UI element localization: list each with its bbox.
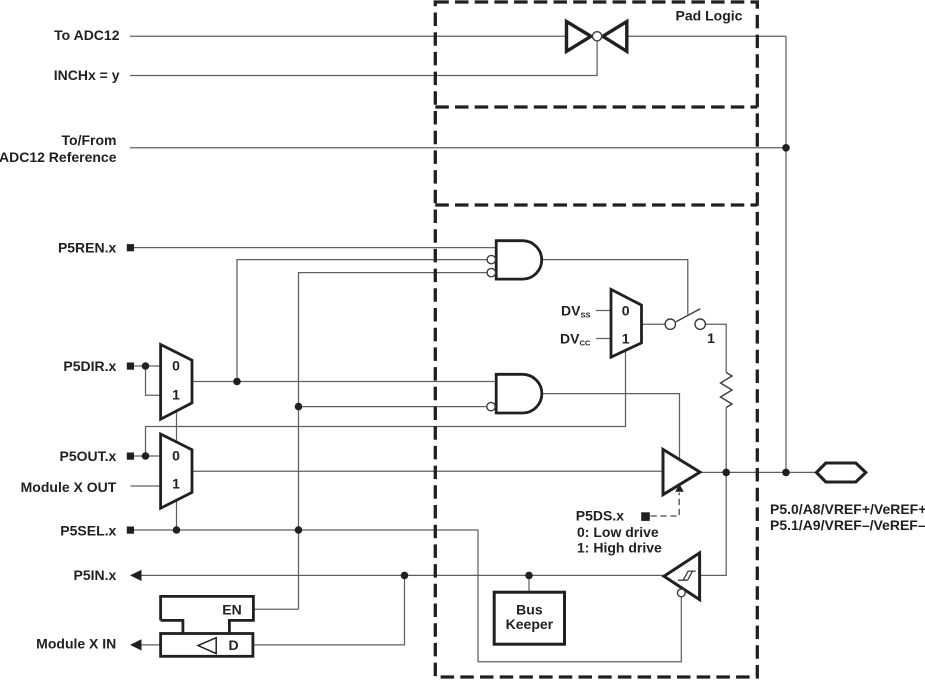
wire INCHx = y control (130, 40, 597, 76)
switch S1 lever (676, 309, 700, 322)
node junction P5SEL mux select (173, 526, 181, 534)
switch S1 throw circle (695, 319, 705, 329)
wire driver output pad net to pin (700, 471, 817, 473)
schmitt trigger U4 enable bubble (677, 589, 685, 597)
latch D clock triangle (198, 638, 216, 654)
svg-text:To ADC12: To ADC12 (54, 27, 120, 43)
svg-text:P5SEL.x: P5SEL.x (60, 522, 116, 538)
P5DS dashed control wire (651, 493, 680, 517)
wire P5OUT.x up to DV mux select (146, 351, 626, 456)
svg-text:Pad Logic: Pad Logic (676, 8, 743, 24)
wire AND U1 bottom input / P5SEL vertical net (299, 273, 488, 610)
wire AND U1 middle input from P5DIR mux output (237, 260, 487, 382)
wire P5SEL.x to schmitt enable (133, 530, 681, 662)
wire To/From ADC12 Reference (130, 147, 786, 149)
wire Module X IN from latch (141, 644, 161, 646)
svg-text:1: High drive: 1: High drive (577, 539, 662, 555)
wire DVss stub (596, 310, 611, 312)
node junction P5SEL and net (295, 526, 303, 534)
transmission gate T1 left triangle (567, 22, 592, 52)
mux M3 DV trapezoid (611, 289, 642, 357)
svg-text:P5.1/A9/VREF–/VeREF–: P5.1/A9/VREF–/VeREF– (770, 517, 925, 533)
wire latch D to P5IN net (253, 575, 405, 645)
schmitt trigger U4 hysteresis symbol (678, 571, 696, 580)
svg-text:P5OUT.x: P5OUT.x (59, 448, 116, 464)
node junction bus keeper (525, 572, 533, 580)
svg-text:Keeper: Keeper (506, 616, 554, 632)
wire DV mux output to switch (642, 323, 666, 325)
node junction AND U2 input (295, 403, 303, 411)
svg-text:P5IN.x: P5IN.x (73, 567, 116, 583)
latch EN block (161, 596, 254, 633)
dashed divider line 1 (435, 105, 757, 108)
svg-text:P5.0/A8/VREF+/VeREF+: P5.0/A8/VREF+/VeREF+ (770, 501, 925, 517)
wire P5DIR mux output to AND U2 (192, 381, 496, 383)
node junction P5DIR mux output (233, 378, 241, 386)
transmission gate T1 control bubble (593, 32, 602, 41)
svg-text:0: 0 (172, 357, 180, 373)
svg-text:INCHx = y: INCHx = y (54, 67, 120, 83)
Module X IN arrowhead (130, 639, 142, 650)
wire P5DIR.x into mux inputs 0 and 1 (133, 366, 160, 395)
svg-text:Bus: Bus (516, 602, 543, 618)
svg-text:0: 0 (172, 447, 180, 463)
node junction ADC reference rail (782, 144, 790, 152)
transmission gate T1 right triangle (603, 22, 627, 52)
wire P5OUT.x into mux input 0 (133, 455, 160, 457)
wire latch EN to P5SEL net (253, 608, 298, 610)
svg-text:D: D (228, 637, 238, 653)
wire AND U2 output to driver enable (542, 394, 680, 463)
svg-text:1: 1 (707, 330, 715, 346)
latch D block (161, 634, 253, 657)
P5DIR.x register square (127, 363, 134, 370)
and-gate U2 input bubble (487, 402, 495, 410)
svg-text:P5REN.x: P5REN.x (58, 239, 117, 255)
P5SEL.x register square (127, 527, 134, 534)
Pad Logic dashed box (435, 2, 757, 677)
svg-text:Module X OUT: Module X OUT (21, 479, 117, 495)
wire P5OUT mux output to driver (192, 470, 663, 472)
and-gate U1 body (496, 241, 542, 279)
bus keeper box (494, 592, 564, 644)
P5OUT.x register square (127, 453, 134, 460)
schmitt trigger U4 triangle (664, 553, 700, 600)
svg-text:ADC12 Reference: ADC12 Reference (0, 149, 117, 165)
switch S1 pole circle (665, 319, 675, 329)
driver buffer U3 triangle (663, 449, 700, 494)
node junction P5DIR input (142, 362, 150, 370)
svg-text:1: 1 (172, 387, 180, 403)
node junction rail pad (782, 469, 790, 477)
node junction latch D input (401, 572, 409, 580)
P5DS source square (641, 512, 650, 521)
wire right vertical rail to pad net (785, 36, 787, 472)
svg-text:0: 0 (622, 302, 630, 318)
P5DS drive strength arrowhead (675, 484, 684, 492)
wire P5IN.x from schmitt output (141, 574, 664, 576)
resistor R1 zigzag (721, 373, 733, 408)
P5REN.x register square (127, 244, 134, 251)
dashed divider line 2 (435, 203, 757, 206)
wire Module X OUT into mux input 1 (131, 485, 161, 487)
wire P5REN.x to AND gate U1 (133, 247, 496, 249)
pin symbol hexagon (817, 463, 866, 482)
wire pad net down to input schmitt trigger (700, 472, 727, 575)
wire bus keeper stub (528, 575, 530, 592)
svg-text:Module X IN: Module X IN (36, 635, 116, 651)
mux M2 P5OUT trapezoid (161, 434, 192, 508)
svg-text:P5DS.x: P5DS.x (576, 507, 624, 523)
svg-text:1: 1 (172, 476, 180, 492)
wire To ADC12 to transmission gate (130, 35, 567, 37)
and-gate U1 input bubble middle (487, 255, 495, 263)
mux M1 P5DIR trapezoid (161, 345, 192, 420)
svg-text:0: Low drive: 0: Low drive (577, 524, 659, 540)
wire switch to resistor R1 (706, 324, 727, 372)
svg-text:EN: EN (222, 602, 241, 618)
wire AND U2 bottom input from P5SEL net (299, 406, 488, 408)
node junction resistor pad (722, 469, 730, 477)
svg-text:P5DIR.x: P5DIR.x (63, 358, 116, 374)
svg-text:1: 1 (622, 330, 630, 346)
svg-text:To/From: To/From (62, 132, 117, 148)
wire resistor R1 bottom to pad net (725, 408, 727, 473)
and-gate U2 body (496, 374, 542, 413)
wire transmission gate output to right rail (627, 35, 786, 37)
wire AND U1 output to switch control (542, 260, 688, 315)
P5IN.x arrowhead (130, 570, 142, 581)
wire DVcc stub (596, 338, 611, 340)
and-gate U1 input bubble bottom (487, 268, 495, 276)
node junction P5OUT input (142, 452, 150, 460)
wire mux select stub P5SEL to both muxes (176, 410, 178, 530)
